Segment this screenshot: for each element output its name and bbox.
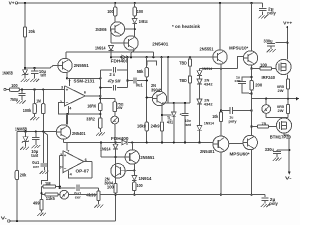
svg-text:3: 3 <box>61 85 63 89</box>
svg-text:2N5401: 2N5401 <box>152 41 169 46</box>
junction pin7 comp node <box>99 77 101 79</box>
diode 1N914 right lower <box>132 176 137 181</box>
wire negative feed line <box>69 194 265 196</box>
resistor 0R5 upper <box>286 79 289 89</box>
junction drive line diode tap <box>198 141 200 143</box>
junction feedback follower <box>66 113 68 115</box>
transistor Q 2N5401 lower follower <box>56 125 70 139</box>
resistor 75ohm 2W <box>114 99 116 102</box>
wire 11k5 left <box>42 194 46 196</box>
wire base left follower <box>25 67 50 69</box>
wire emitter to op-amp V+ pin7 <box>66 73 68 79</box>
svg-text:2W: 2W <box>117 105 123 110</box>
zener diode 1N965B upper <box>24 68 26 70</box>
wire inverting input loop <box>58 103 100 115</box>
junction MPSU10 emitter node <box>250 67 252 69</box>
wire OP-07 +input <box>60 155 63 157</box>
junction comp lower <box>99 87 101 89</box>
svg-text:1N914: 1N914 <box>202 66 213 71</box>
junction TL431 top <box>173 102 175 104</box>
junction output 0R5 <box>287 98 289 100</box>
capacitor 0u1 comp <box>128 80 133 82</box>
wire driver emitter down <box>220 152 222 195</box>
junction 58k 0u1 <box>146 79 148 81</box>
capacitor 10u tant lower <box>35 132 37 138</box>
svg-text:FDH400: FDH400 <box>111 59 129 64</box>
transistor Q 2N5551 left follower <box>58 58 72 72</box>
resistor 1M feedback <box>43 185 56 188</box>
svg-text:11k5: 11k5 <box>46 196 56 201</box>
svg-text:47p SM: 47p SM <box>107 79 121 84</box>
resistor 11k5 feedback <box>45 193 58 196</box>
junction feedback branch <box>42 130 44 132</box>
transistor Q MPSU60 <box>243 135 257 149</box>
wire 100 left down <box>115 193 117 221</box>
svg-text:100: 100 <box>260 62 268 67</box>
wire 2N3906 collector to node <box>125 28 135 30</box>
junction top rail x25 <box>24 2 26 4</box>
transistor Q 2N5551 right follower <box>213 50 227 64</box>
wire pin4 to follower <box>67 114 69 125</box>
svg-text:2N5551: 2N5551 <box>74 63 90 68</box>
junction bias bus <box>167 56 169 58</box>
wire op-amp V- pin4 <box>67 106 69 114</box>
junction 330u top <box>286 42 288 44</box>
wire driver collector <box>220 122 222 137</box>
junction bias bus <box>130 56 132 58</box>
svg-text:MPSU10*: MPSU10* <box>229 45 248 50</box>
wire 2N3904 collector <box>161 57 163 91</box>
zener diode 1N965B lower <box>24 132 26 137</box>
wire tap down to 1N914 <box>115 142 117 144</box>
junction 1u poly right <box>250 109 252 111</box>
op-amp U2 OP-07 <box>63 151 84 173</box>
wire mid reference line <box>167 57 169 103</box>
svg-text:7: 7 <box>67 150 69 154</box>
wire diode string to drive line <box>199 130 201 142</box>
wire 75R stub <box>100 98 115 100</box>
svg-text:2: 2 <box>60 100 62 104</box>
svg-text:1N914: 1N914 <box>139 176 153 181</box>
svg-text:1N914: 1N914 <box>139 19 148 24</box>
resistor 100 lower right <box>133 182 136 191</box>
diode 1N914 top <box>132 19 137 24</box>
junction input 1M <box>33 88 35 90</box>
svg-text:2 x: 2 x <box>109 72 115 77</box>
wire OP-07 pin4 loop <box>69 170 92 178</box>
junction 1u poly left <box>220 109 222 111</box>
svg-text:7: 7 <box>69 79 71 83</box>
svg-text:1M: 1M <box>36 98 41 103</box>
svg-text:SSM-2131: SSM-2131 <box>74 79 96 84</box>
svg-text:V++: V++ <box>283 21 292 26</box>
wire 2N5401 base <box>111 42 125 44</box>
capacitor 10v tant bias <box>184 103 186 113</box>
wire gate N <box>272 68 276 70</box>
wire MPSU60 base <box>228 143 243 145</box>
svg-text:* on heatsink: * on heatsink <box>172 24 201 29</box>
wire P drain to V-- <box>283 133 285 135</box>
svg-text:1N914: 1N914 <box>100 146 111 151</box>
wire OP-07 -input <box>60 166 63 168</box>
junction output meter <box>265 98 267 100</box>
junction emitter node <box>161 114 163 116</box>
wire 16R5 to 33R2 <box>99 111 101 118</box>
resistor 499 feedback <box>41 195 43 200</box>
svg-text:IRF240: IRF240 <box>262 75 276 80</box>
svg-text:−: − <box>66 100 69 105</box>
resistor 24k9 bias <box>160 122 163 131</box>
diode 1N914 lower bias <box>197 125 202 130</box>
wire 2N5401 emitter to bus <box>133 49 135 51</box>
wire 2N5551 lower base <box>100 142 102 157</box>
svg-text:MPSU60*: MPSU60* <box>230 151 250 156</box>
junction neg line driver <box>220 194 222 196</box>
wire emitter down <box>220 64 222 69</box>
junction 1u cer top <box>250 76 252 78</box>
junction drive line TL431 tap <box>173 141 175 143</box>
svg-text:1N914: 1N914 <box>95 45 106 50</box>
junction cap node <box>33 67 35 69</box>
svg-text:2N5551: 2N5551 <box>140 155 155 160</box>
diode FDH400 in bias bus <box>122 55 126 59</box>
svg-text:+: + <box>64 153 67 158</box>
svg-text:100: 100 <box>107 185 115 190</box>
resistor TBD upper <box>189 57 191 59</box>
wire 2N5551 lower collector <box>131 142 133 149</box>
resistor 200 <box>250 80 253 90</box>
junction base line <box>114 156 116 158</box>
svg-text:2N5401: 2N5401 <box>200 149 215 154</box>
wire MPSU60 top <box>251 111 253 136</box>
wire collector to rail <box>219 3 221 50</box>
capacitor 330u positive rail <box>275 42 287 44</box>
wire 2N5551 emitter to 2N3904 base <box>134 163 135 165</box>
svg-text:poly: poly <box>269 201 278 206</box>
svg-text:+: + <box>66 87 69 92</box>
wire OP-07 pin7 up <box>66 142 68 150</box>
svg-text:FDH400: FDH400 <box>111 136 129 141</box>
junction drive line 24k9 tap <box>161 141 163 143</box>
resistor 0R5 lower <box>287 99 289 105</box>
capacitor 2u poly upper-right <box>262 3 264 8</box>
junction 75R stub <box>99 97 101 99</box>
resistor 100 input <box>9 88 19 91</box>
junction lower cap <box>35 130 37 132</box>
wire P source <box>283 117 285 119</box>
junction bias bus <box>152 56 154 58</box>
wire emitter to TL431 ref <box>162 114 172 116</box>
wire 1M left <box>42 186 44 188</box>
wire 200 bias string <box>251 69 253 99</box>
node output terminal <box>296 98 299 100</box>
transistor Q 2N5401 driver <box>213 136 229 152</box>
junction neg line left <box>114 194 116 196</box>
transistor Q 2N3904 lower <box>111 164 125 178</box>
junction 330u neg <box>288 149 290 151</box>
junction drive line 2N5551 collector tap <box>131 141 133 143</box>
svg-text:100: 100 <box>107 9 114 14</box>
junction top rail x135 <box>134 2 136 4</box>
svg-text:poly: poly <box>267 11 276 16</box>
wire 58k to 2N3904 base <box>146 77 148 122</box>
capacitor 1u cer parallel <box>242 77 252 82</box>
wire bottom V- rail <box>10 220 116 222</box>
ground of upper 10u cap <box>30 79 33 82</box>
capacitor 2u poly lower <box>264 195 266 198</box>
svg-text:tant: tant <box>41 73 47 78</box>
wire diode to collector node <box>134 23 136 36</box>
wire top V+ rail <box>18 2 263 4</box>
wire MPSU10 collector <box>251 3 253 51</box>
wire comp line upper <box>100 69 112 71</box>
diode FDH400 lower in drive line <box>122 140 127 145</box>
diode 2N4342 upper <box>199 76 201 79</box>
svg-text:V-: V- <box>285 175 292 180</box>
junction 1u cer bottom <box>250 92 252 94</box>
junction drive line 16k9 tap <box>146 141 148 143</box>
device TL431 <box>173 103 175 112</box>
svg-text:1N965B: 1N965B <box>15 127 27 132</box>
transistor Q 2N5401 input cascode <box>124 36 138 50</box>
wire diode string mid <box>199 84 201 99</box>
wire 2N3906 base down <box>111 28 115 30</box>
svg-text:431: 431 <box>167 120 174 125</box>
resistor 10k <box>219 112 222 122</box>
junction drive line opamp follower tap <box>100 141 102 143</box>
junction zener node <box>24 67 26 69</box>
svg-text:20k: 20k <box>29 29 36 34</box>
svg-text:58k: 58k <box>137 69 144 74</box>
transistor Q 2N3906 <box>110 22 124 36</box>
mosfet M IRF240 <box>276 59 291 74</box>
svg-text:2N3906: 2N3906 <box>96 27 108 32</box>
junction 0u1 left <box>126 79 128 81</box>
capacitor servo integrator <box>60 187 76 189</box>
wire to 1N914 right <box>133 170 135 175</box>
svg-text:−: − <box>64 166 67 171</box>
junction 16R5/33R2 node <box>99 113 101 115</box>
junction top rail x220 <box>219 2 221 4</box>
svg-text:100: 100 <box>137 9 144 14</box>
svg-text:cer: cer <box>235 78 242 83</box>
svg-text:2W: 2W <box>278 108 284 113</box>
diode 1N914 at 2N3906 base <box>109 46 114 51</box>
junction input 750p <box>21 88 23 90</box>
wire 2N3906 emitter <box>114 16 116 22</box>
ground of 330u positive <box>267 49 270 52</box>
svg-text:20k: 20k <box>20 172 27 177</box>
svg-text:TBD: TBD <box>179 78 187 83</box>
wire TBD down to ref line <box>189 83 191 103</box>
capacitor 750p <box>21 90 23 94</box>
wire OP-07 output <box>84 161 92 163</box>
svg-text:24k9: 24k9 <box>151 123 161 128</box>
wire IRF240 source <box>286 75 288 80</box>
svg-text:100: 100 <box>137 183 144 188</box>
svg-text:poly: poly <box>229 118 238 123</box>
wire 16k9 to drive line <box>146 131 148 142</box>
wire 24k9 down <box>161 131 163 142</box>
junction neg line MPSU60 <box>250 194 252 196</box>
ground of 499 <box>41 210 43 213</box>
resistor 75 gate P <box>252 126 258 128</box>
svg-text:16R6: 16R6 <box>87 103 96 108</box>
wire drive line <box>64 141 121 143</box>
junction bias bus <box>110 56 112 58</box>
capacitor 47p upper <box>112 67 114 73</box>
junction bias bus <box>126 56 128 58</box>
svg-text:0u1: 0u1 <box>136 82 144 87</box>
wire 2N3904 base <box>125 169 134 171</box>
svg-text:330u: 330u <box>265 147 274 152</box>
svg-text:tant: tant <box>185 122 192 127</box>
capacitor 0u1 servo in <box>42 132 44 163</box>
svg-text:1N914: 1N914 <box>204 120 215 125</box>
ground of 750p <box>17 100 20 103</box>
svg-text:200: 200 <box>255 82 263 87</box>
resistor 100 (left current source) <box>114 3 116 7</box>
ground of 330u negative <box>273 158 276 161</box>
resistor TBD lower <box>189 66 191 76</box>
wire comp right branch <box>127 57 129 87</box>
junction drive line 1N914 tap <box>114 141 116 143</box>
op-amp U1 SSM-2131 <box>65 86 86 106</box>
svg-text:499: 499 <box>33 201 40 206</box>
svg-text:1N965B: 1N965B <box>2 70 13 75</box>
ground of 0u1 <box>40 171 43 174</box>
ammeter A feedback <box>58 194 60 196</box>
capacitor 47p lower <box>112 85 114 91</box>
wire 100 right down <box>133 191 135 195</box>
svg-text:100k: 100k <box>23 108 32 113</box>
junction gate line P <box>250 125 252 127</box>
junction output node <box>99 95 101 97</box>
junction top rail x115 <box>114 2 116 4</box>
svg-text:16k9: 16k9 <box>137 123 146 128</box>
wire 2N3904 emitter <box>161 104 163 121</box>
transistor Q MPSU10 <box>243 51 257 65</box>
resistor 16R5 <box>99 70 101 103</box>
resistor 16k9 <box>145 122 148 131</box>
transistor Q 2N3904 bias (on heatsink) <box>152 91 166 105</box>
svg-text:4342: 4342 <box>204 102 214 107</box>
junction bias bus <box>146 56 148 58</box>
ground of lower zener <box>20 147 23 150</box>
ground of 2u poly lower <box>261 204 264 207</box>
svg-text:OP-07: OP-07 <box>76 169 90 174</box>
svg-text:cer: cer <box>33 164 39 169</box>
svg-text:tant: tant <box>31 153 39 158</box>
wire gate P <box>269 126 277 128</box>
capacitor 330u negative rail <box>277 149 289 151</box>
junction emitter/diode node <box>133 169 135 171</box>
junction bias bus <box>189 56 191 58</box>
wire collector line left follower <box>66 51 153 53</box>
svg-text:+: + <box>180 113 182 117</box>
wire to diode <box>134 16 136 19</box>
svg-text:750p: 750p <box>10 97 18 102</box>
resistor 100k input <box>42 90 44 104</box>
wire lower follower base <box>50 131 56 133</box>
svg-text:330u: 330u <box>264 38 273 43</box>
svg-text:3904*: 3904* <box>151 87 162 92</box>
resistor 1M input <box>34 90 36 104</box>
svg-text:4342: 4342 <box>204 82 214 87</box>
node V-- terminal <box>288 172 291 175</box>
svg-text:1M: 1M <box>45 181 51 186</box>
wire op-amp output <box>85 95 100 97</box>
ground of 2u poly upper-right <box>258 15 261 18</box>
resistor 20k lower <box>16 132 18 171</box>
junction bias bus <box>120 56 122 58</box>
svg-text:6: 6 <box>84 91 86 95</box>
junction emitter node right <box>220 68 222 70</box>
wire lower follower emitter <box>66 115 68 125</box>
svg-text:2N5401: 2N5401 <box>72 131 86 136</box>
junction integrator cap left <box>59 187 61 189</box>
wire diode string lower <box>199 104 201 125</box>
wire driver base <box>212 141 214 144</box>
wire output line <box>252 98 297 100</box>
wire 1M node <box>56 186 60 188</box>
svg-text:33R2: 33R2 <box>86 116 95 121</box>
ammeter A bias current <box>114 112 116 116</box>
junction lower zener <box>24 130 26 132</box>
transistor Q 2N5551 lower bias <box>125 150 139 164</box>
diode string 1N914 upper <box>199 69 201 71</box>
capacitor 1u poly <box>221 110 229 112</box>
resistor 100 (right current source) <box>134 3 136 7</box>
wire comp line lower <box>100 87 112 89</box>
junction drive line diode <box>198 141 200 143</box>
wire 100k down to feedback node <box>42 114 44 132</box>
ground of lower 10u cap <box>32 145 35 148</box>
wire input line <box>19 89 64 91</box>
junction tant top <box>184 102 186 104</box>
wire emitter bus <box>200 68 238 70</box>
capacitor 10u tant upper <box>34 68 36 71</box>
junction V- 20k <box>16 220 18 222</box>
mosfet M BTM17P20 <box>276 118 291 133</box>
wire loop hook <box>147 61 157 65</box>
junction input 100k <box>42 88 44 90</box>
wire bias bus <box>111 56 213 58</box>
resistor 100 lower left <box>114 184 117 194</box>
wire lower follower collector <box>63 139 65 142</box>
wire MPSU60 emitter down <box>251 149 253 194</box>
ground of 33R2 <box>99 128 101 132</box>
ground of servo resistor <box>98 201 100 205</box>
wire 10k to driver <box>220 122 222 137</box>
svg-text:V+: V+ <box>9 0 15 5</box>
wire ammeter to drive line <box>114 124 116 142</box>
resistor 100 gate N <box>252 68 260 70</box>
svg-text:75: 75 <box>262 121 267 126</box>
junction drive line tant tap <box>184 141 186 143</box>
resistor 4k99 servo body <box>97 191 100 201</box>
junction bias bus <box>160 56 162 58</box>
wire 1N914 to 2N3904 <box>115 149 117 183</box>
resistor 33R2 <box>99 118 102 128</box>
resistor R 20k upper <box>24 3 26 27</box>
svg-text:2N5551: 2N5551 <box>200 46 215 51</box>
junction top rail x252 <box>250 2 252 4</box>
svg-text:2W: 2W <box>278 88 284 93</box>
svg-text:V-: V- <box>1 216 8 221</box>
resistor 4k99 servo <box>98 188 100 191</box>
svg-text:100: 100 <box>11 83 18 88</box>
